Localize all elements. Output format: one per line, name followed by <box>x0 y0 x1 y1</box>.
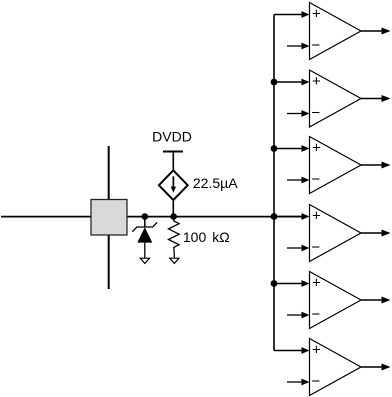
svg-text:+: + <box>312 6 321 23</box>
wire: U1 output with arrow <box>361 28 391 35</box>
wire: vertical lead below pad <box>108 235 110 289</box>
wire: U5 inverting (−) input stub <box>287 312 310 319</box>
svg-text:+: + <box>312 275 321 292</box>
wire: U4 inverting (−) input stub <box>287 245 310 252</box>
svg-text:+: + <box>312 73 321 90</box>
wire: U3 inverting (−) input stub <box>287 177 310 184</box>
svg-text:+: + <box>312 140 321 157</box>
svg-text:−: − <box>311 306 320 323</box>
op-amp comparator U6 <box>310 339 362 396</box>
wire: U3 output with arrow <box>361 162 391 169</box>
wire: U5 output with arrow <box>361 297 391 304</box>
wire: U5 noninverting (+) input from bus <box>274 280 310 287</box>
op-amp comparator U2 <box>310 70 362 127</box>
wire: U6 noninverting (+) input from bus <box>274 347 310 354</box>
wire: input lead from left edge to pad <box>1 216 91 218</box>
pad P1 (I/O pin square) <box>91 200 127 236</box>
wire: current source to main net junction <box>172 200 174 216</box>
junction: bus tap at y=82 <box>271 79 278 86</box>
wire: U6 inverting (−) input stub <box>287 379 310 386</box>
svg-text:kΩ: kΩ <box>212 229 229 245</box>
wire: junction down to zener cathode <box>144 217 146 228</box>
svg-text:−: − <box>311 171 320 188</box>
wire: U2 inverting (−) input stub <box>287 110 310 117</box>
zener / ESD clamp diode D1 <box>132 222 157 242</box>
wire: U3 noninverting (+) input from bus <box>274 145 310 152</box>
junction: bus tap at y=148.5 <box>271 145 278 152</box>
svg-text:22.5µA: 22.5µA <box>193 175 238 191</box>
wire: DVDD bar to current source <box>172 152 174 171</box>
svg-text:−: − <box>311 37 320 54</box>
wire: pad to comparator bus (main horizontal net) <box>127 216 303 218</box>
wire: vertical lead above pad <box>108 146 110 200</box>
wire: comparator + input bus (vertical) <box>273 15 275 351</box>
wire: zener anode to ground <box>144 243 146 259</box>
wire: U4 output with arrow <box>361 230 391 237</box>
current source I1 (diamond with down arrow) <box>159 170 188 200</box>
wire: U4 noninverting (+) input from bus <box>274 213 310 220</box>
op-amp comparator U1 <box>310 3 362 60</box>
wire: U2 noninverting (+) input from bus <box>274 79 310 86</box>
svg-text:+: + <box>312 342 321 359</box>
junction: bus tap at y=216.5 <box>271 213 278 220</box>
svg-text:DVDD: DVDD <box>152 129 192 145</box>
junction: bus tap at y=283.5 <box>271 280 278 287</box>
DVDD supply T-bar <box>163 151 183 153</box>
wire: U1 inverting (−) input stub <box>287 43 310 50</box>
ground symbol (zener branch) <box>140 258 149 263</box>
op-amp comparator U5 <box>310 272 362 329</box>
resistor R1 zigzag <box>169 217 180 259</box>
junction: current source / resistor tap <box>170 213 177 220</box>
svg-text:−: − <box>311 373 320 390</box>
wire: U2 output with arrow <box>361 95 391 102</box>
op-amp comparator U4 <box>310 205 362 262</box>
wire: U1 noninverting (+) input from bus <box>274 11 310 18</box>
svg-text:−: − <box>311 105 320 122</box>
junction: zener diode tap on main net <box>142 213 149 220</box>
op-amp comparator U3 <box>310 137 362 194</box>
svg-text:+: + <box>312 208 321 225</box>
svg-text:100: 100 <box>183 229 207 245</box>
wire: U6 output with arrow <box>361 364 391 371</box>
ground symbol (resistor branch) <box>170 258 179 263</box>
svg-text:−: − <box>311 239 320 256</box>
